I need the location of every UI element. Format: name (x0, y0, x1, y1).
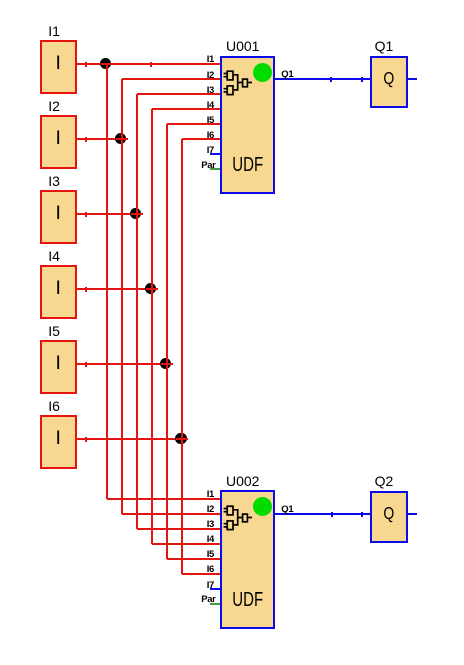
pin label I1 of U002 (164, 490, 214, 500)
output block Q1 (370, 56, 408, 108)
wire I6 block output (76, 438, 182, 440)
wire I6 to U001 pin (182, 138, 222, 140)
wire I3 block output (76, 213, 137, 215)
wire I6 to U002 pin (182, 573, 222, 575)
label I5 (48, 324, 60, 338)
input block I2 (40, 115, 77, 168)
wire tick I6 (85, 437, 87, 442)
glyph I in block I3 (40, 204, 77, 223)
wire I2 to U001 pin (122, 78, 222, 80)
pin label I3 of U001 (164, 86, 214, 96)
junction I6 (175, 433, 186, 444)
wire I4 trunk vertical (151, 109, 153, 544)
pin label Q1 of U002 (281, 505, 293, 515)
wire I1 block output (76, 63, 107, 65)
wire tick I1 mid (150, 62, 152, 67)
UDF icon U002 (223, 504, 255, 534)
junction I2 (115, 133, 126, 144)
wire I6 trunk vertical (181, 139, 183, 574)
green run indicator U001 (253, 63, 272, 82)
pin label Q1 of U001 (281, 70, 293, 80)
wire Q2 right stub (407, 513, 418, 515)
wire tick I5 (85, 362, 87, 367)
glyph I in block I5 (40, 354, 77, 373)
pin label I5 of U002 (164, 550, 214, 560)
wire I2 trunk vertical (121, 79, 123, 514)
wire I4 to U001 pin (152, 108, 222, 110)
input block I3 (40, 190, 77, 243)
pin label I4 of U002 (164, 535, 214, 545)
wire I5 trunk vertical (166, 124, 168, 559)
pin label I4 of U001 (164, 101, 214, 111)
wire I2 block output (76, 138, 122, 140)
pin label Par of U001 (164, 161, 216, 171)
label U002 (226, 474, 259, 488)
wire I1 trunk vertical (106, 64, 108, 499)
junction I1 (100, 58, 111, 69)
input block I4 (40, 265, 77, 318)
wire I2 over junction (116, 138, 128, 140)
text UDF U001 (227, 158, 269, 173)
wire I4 over junction (146, 288, 158, 290)
wire tick Q2 b (361, 512, 363, 517)
input block I1 (40, 40, 77, 93)
wire I1 over junction (101, 63, 113, 65)
junction I3 (130, 208, 141, 219)
wire I5 to U001 pin (167, 123, 222, 125)
wire U001.Q1 to Q1 (274, 78, 372, 80)
glyph I in block I6 (40, 429, 77, 448)
label Q2 (375, 474, 394, 488)
wire I3 to U001 pin (137, 93, 222, 95)
UDF block U002 (220, 490, 275, 628)
label Q1 (375, 39, 394, 53)
glyph Q in block Q1 (374, 71, 404, 85)
pin label I6 of U001 (164, 131, 214, 141)
junction I4 (145, 283, 156, 294)
wire tick I2 (85, 137, 87, 142)
UDF block U001 (220, 56, 275, 194)
wire I3 to U002 pin (137, 528, 222, 530)
wire U002 I7 open stub (210, 588, 222, 590)
input block I6 (40, 415, 77, 468)
wire Q1 right stub (407, 78, 418, 80)
junction I5 (160, 358, 171, 369)
label U001 (226, 39, 259, 53)
wire tick Q1 a (330, 77, 332, 82)
green run indicator U002 (253, 497, 272, 516)
pin label Par of U002 (164, 595, 216, 605)
wire I2 to U002 pin (122, 513, 222, 515)
glyph Q in block Q2 (374, 506, 404, 520)
wire I5 to U002 pin (167, 558, 222, 560)
pin label I5 of U001 (164, 116, 214, 126)
wire tick I1 (85, 62, 87, 67)
wire tick I3 (85, 212, 87, 217)
wire I3 over junction (131, 213, 143, 215)
text UDF U002 (227, 593, 269, 608)
wire I4 to U002 pin (152, 543, 222, 545)
wire U001 Par stub (210, 168, 221, 170)
wire tick I4 (85, 287, 87, 292)
pin label I6 of U002 (164, 565, 214, 575)
label I1 (48, 24, 60, 38)
glyph I in block I1 (40, 54, 77, 73)
wire I1 to U001 pin (107, 63, 222, 65)
pin label I1 of U001 (164, 55, 214, 65)
pin label I2 of U001 (164, 71, 214, 81)
input block I5 (40, 340, 77, 393)
wire tick Q1 b (361, 77, 363, 82)
pin label I7 of U001 (164, 146, 214, 156)
wire tick Q2 a (331, 512, 333, 517)
glyph I in block I4 (40, 279, 77, 298)
wire U002 Par stub (210, 603, 221, 605)
wire I5 block output (76, 363, 167, 365)
wire U002.Q1 to Q2 (274, 513, 372, 515)
output block Q2 (370, 491, 408, 543)
label I3 (48, 174, 60, 188)
pin label I2 of U002 (164, 505, 214, 515)
wire I5 over junction (161, 363, 173, 365)
UDF icon U001 (223, 69, 255, 99)
wire I4 block output (76, 288, 152, 290)
wire I6 over junction (176, 438, 188, 440)
wire U001 I7 open stub (210, 153, 222, 155)
label I2 (48, 99, 60, 113)
wire I3 trunk vertical (136, 94, 138, 529)
pin label I7 of U002 (164, 581, 214, 591)
pin label I3 of U002 (164, 520, 214, 530)
label I4 (48, 249, 60, 263)
glyph I in block I2 (40, 129, 77, 148)
label I6 (48, 399, 60, 413)
wire I1 to U002 pin (107, 498, 222, 500)
